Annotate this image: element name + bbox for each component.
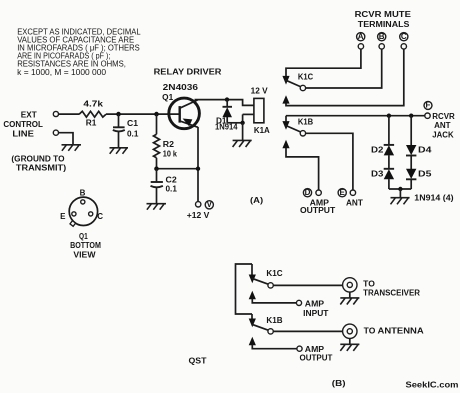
terminal E open [350, 190, 355, 195]
diode D4 [406, 116, 432, 156]
wire C to K1C lower contact [286, 49, 404, 106]
svg-text:E: E [340, 188, 346, 197]
switch K1C (B) pivot [268, 283, 273, 288]
terminal D circled [303, 188, 311, 197]
relay coil K1A [243, 86, 270, 135]
transistor Q1 2N4036 [169, 98, 200, 129]
svg-text:R2: R2 [163, 140, 175, 149]
svg-text:EXTCONTROLLINE: EXTCONTROLLINE [3, 110, 43, 138]
svg-text:Q1BOTTOMVIEW: Q1BOTTOMVIEW [70, 232, 101, 260]
node junction R2 [155, 112, 159, 116]
switch K1B (B) pivot [268, 329, 273, 334]
svg-text:C: C [97, 212, 103, 221]
svg-text:(B): (B) [332, 379, 346, 388]
wire [106, 113, 180, 115]
wire diode bottoms join [389, 188, 411, 190]
wire lower contact to D AMP OUTPUT [286, 148, 319, 190]
svg-text:ANT: ANT [346, 198, 363, 207]
wire to amp input [252, 299, 296, 303]
wire [242, 123, 244, 141]
switch K1C (B) upper contact arrow [249, 275, 256, 284]
wire [157, 168, 199, 170]
terminal B circled [378, 32, 386, 41]
svg-text:D5: D5 [418, 170, 432, 179]
svg-text:R1: R1 [86, 118, 97, 127]
terminal +12V [196, 202, 201, 207]
terminal A circled [357, 32, 365, 41]
terminal F open rcvr ant jack [425, 113, 430, 118]
terminal AMP INPUT [296, 300, 301, 305]
wire to amp output [252, 345, 297, 349]
svg-text:SeekIC.com: SeekIC.com [406, 380, 459, 389]
terminal ext control line [53, 111, 58, 116]
section B left bracket wire [236, 264, 253, 314]
wire D1 anode to relay pin [227, 122, 242, 124]
wire [399, 189, 401, 198]
wire [388, 179, 390, 189]
svg-text:TOANTENNA: TOANTENNA [364, 327, 424, 336]
wire [58, 133, 73, 145]
svg-text:TOTRANSCEIVER: TOTRANSCEIVER [363, 279, 420, 297]
terminal A [358, 44, 363, 49]
svg-text:D4: D4 [418, 146, 432, 155]
diode D5 [406, 169, 432, 180]
terminal ground-to-transmit [53, 130, 58, 135]
switch K1C (B) arm [252, 278, 268, 284]
svg-text:K1A: K1A [254, 126, 270, 135]
svg-text:C1: C1 [127, 119, 139, 128]
switch K1B lower contact arrow [282, 140, 289, 148]
wire rail to K1B upper contact [285, 116, 287, 122]
svg-text:B: B [379, 32, 385, 41]
switch K1B (B) upper contact arrow [249, 319, 256, 328]
svg-text:AMPOUTPUT: AMPOUTPUT [300, 345, 333, 363]
node junction rail D2 [387, 114, 391, 118]
switch K1C upper contact arrow [282, 76, 289, 85]
svg-text:12 V: 12 V [251, 86, 269, 95]
terminal B [379, 44, 384, 49]
svg-text:D3: D3 [371, 170, 384, 179]
switch K1C arm [285, 80, 301, 87]
diode D1 1N914 [215, 100, 238, 132]
switch K1B (B) lower contact arrow [249, 337, 256, 345]
diode D2 [371, 116, 394, 156]
capacitor C2 0.1 [151, 169, 178, 204]
svg-text:1N914: 1N914 [215, 122, 238, 131]
wire pivot to E ANT [306, 133, 353, 190]
svg-text:A: A [358, 32, 364, 41]
resistor R2 10k [154, 114, 178, 169]
node junction [399, 187, 403, 191]
wire A to K1C contact [286, 49, 361, 76]
switch K1B pivot [300, 131, 305, 136]
wire [58, 113, 79, 115]
node junction C1 [117, 112, 121, 116]
svg-text:K1C: K1C [266, 269, 282, 278]
terminal C circled [400, 32, 408, 41]
svg-text:1N914 (4): 1N914 (4) [414, 193, 454, 202]
wire [388, 155, 390, 168]
svg-text:E: E [60, 212, 66, 221]
ground below C2 [147, 204, 167, 210]
coax connector to transceiver [343, 278, 357, 298]
svg-text:K1C: K1C [298, 72, 314, 81]
terminal AMP OUTPUT [297, 346, 302, 351]
svg-text:(GROUND TOTRANSMIT): (GROUND TOTRANSMIT) [11, 154, 66, 172]
svg-text:10 k: 10 k [163, 150, 178, 159]
node junction C2 [155, 167, 159, 171]
node junction emitter [196, 167, 200, 171]
node junction D1 [225, 98, 229, 102]
svg-text:V: V [207, 200, 213, 209]
svg-text:C: C [401, 32, 407, 41]
svg-text:RELAY DRIVER: RELAY DRIVER [154, 68, 222, 77]
ground below coax 2 [340, 344, 359, 351]
switch K1B arm [285, 125, 301, 132]
ground below C1 [110, 148, 129, 154]
terminal D open [316, 190, 321, 195]
switch K1C lower contact arrow [282, 95, 289, 103]
svg-text:AMPOUTPUT: AMPOUTPUT [300, 199, 335, 216]
svg-text:(A): (A) [250, 196, 263, 205]
svg-text:B: B [80, 189, 86, 198]
ground below diodes [391, 198, 410, 205]
svg-text:+12 V: +12 V [187, 211, 210, 220]
wire pivot to coax 2 [273, 330, 342, 332]
svg-text:RCVRANTJACK: RCVRANTJACK [432, 112, 455, 140]
switch K1C (B) lower contact arrow [249, 291, 256, 299]
capacitor C1 0.1 [113, 114, 139, 148]
svg-text:K1B: K1B [298, 118, 314, 127]
resistor R1 4.7k [79, 99, 106, 127]
node junction rail D4 [409, 114, 413, 118]
svg-text:D2: D2 [371, 146, 384, 155]
ground below K1A [233, 140, 252, 147]
node junction ground [241, 121, 245, 125]
svg-text:QST: QST [189, 356, 207, 365]
wire [251, 264, 253, 275]
wire pivot to B [306, 49, 382, 88]
svg-text:C2: C2 [166, 175, 178, 184]
wire K1B common rail to F [286, 115, 426, 117]
diode D3 [371, 169, 394, 180]
switch K1B upper contact arrow [282, 121, 289, 130]
svg-text:D: D [305, 188, 311, 197]
svg-text:K1B: K1B [266, 316, 282, 325]
svg-text:RCVR MUTETERMINALS: RCVR MUTETERMINALS [355, 10, 412, 29]
coax connector to antenna [343, 324, 357, 344]
wire [410, 179, 412, 189]
terminal E circled [338, 188, 346, 197]
ground (ground to transmit) [62, 145, 82, 151]
wire collector to K1A [195, 100, 254, 106]
svg-text:0.1: 0.1 [166, 184, 178, 193]
terminal F circled [424, 101, 432, 110]
svg-text:F: F [426, 101, 431, 110]
switch K1C pivot [300, 85, 305, 90]
wire pivot to coax 1 [273, 284, 342, 286]
ground below coax 1 [340, 298, 359, 305]
svg-text:AMPINPUT: AMPINPUT [303, 299, 328, 318]
terminal C [401, 44, 406, 49]
transistor Q1 bottom view [60, 189, 103, 227]
svg-text:0.1: 0.1 [127, 129, 139, 138]
wire emitter to +12V [197, 127, 199, 202]
wire [410, 156, 412, 170]
meter point V circle [205, 200, 213, 209]
switch K1B (B) arm [252, 324, 268, 330]
wire [251, 314, 253, 319]
svg-text:4.7k: 4.7k [83, 99, 103, 108]
svg-text:EXCEPT AS INDICATED, DECIMALVA: EXCEPT AS INDICATED, DECIMALVALUES OF CA… [17, 27, 141, 77]
